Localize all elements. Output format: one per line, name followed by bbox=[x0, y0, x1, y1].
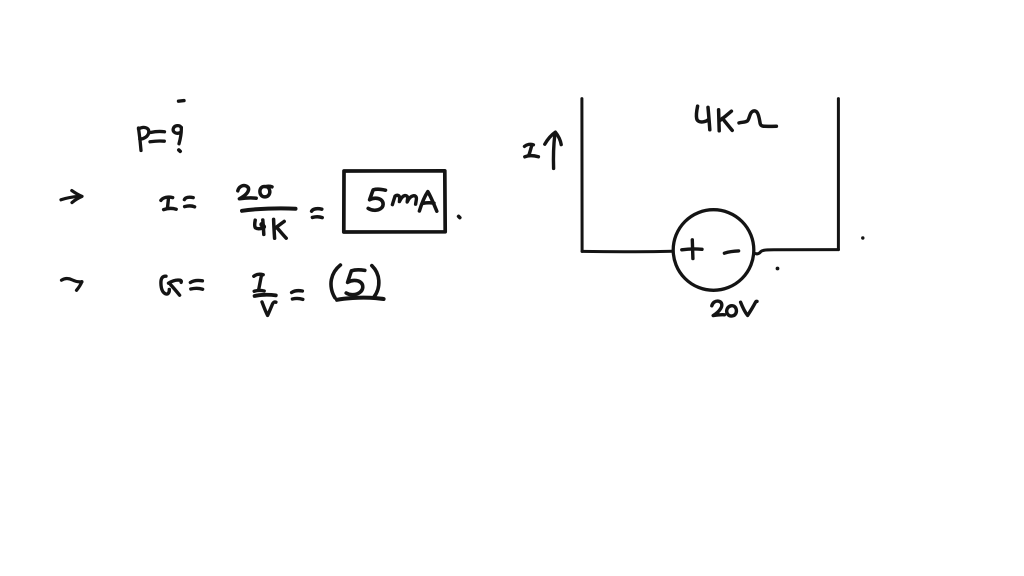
wire left vertical bbox=[580, 99, 583, 252]
current label I bbox=[525, 144, 534, 146]
node dot right of circuit bbox=[861, 236, 864, 239]
fraction bar 20/4K bbox=[242, 208, 296, 210]
answer (5) bbox=[331, 265, 340, 298]
current direction arrow bbox=[553, 135, 554, 169]
annotation dash above P bbox=[179, 99, 185, 103]
underline below (5) bbox=[337, 298, 384, 300]
wire bottom left bbox=[582, 250, 673, 254]
equals sign after R bbox=[190, 280, 202, 282]
fraction bar I/V bbox=[255, 295, 276, 296]
minus terminal bbox=[724, 251, 738, 253]
equals sign after P bbox=[151, 131, 165, 132]
resistor label 4K bbox=[696, 106, 708, 122]
resistor label ohm squiggle bbox=[739, 111, 776, 127]
answer box bbox=[344, 171, 445, 232]
question mark bbox=[173, 126, 181, 134]
boxed value 5mA bbox=[368, 189, 385, 210]
variable I bbox=[161, 197, 173, 200]
node dot below bottom wire bbox=[776, 267, 780, 271]
denominator 4K bbox=[255, 220, 264, 228]
arrow bullet 2 bbox=[62, 279, 82, 282]
wire right vertical bbox=[837, 99, 840, 250]
numerator 20 bbox=[238, 186, 256, 199]
voltage source V1 bbox=[673, 210, 754, 291]
numerator I bbox=[254, 274, 263, 276]
equals sign before box bbox=[312, 209, 322, 212]
wire bottom right bbox=[754, 250, 839, 254]
denominator V bbox=[262, 302, 276, 315]
equals sign after I bbox=[184, 197, 193, 199]
label P bbox=[139, 128, 142, 151]
variable R bbox=[161, 276, 169, 294]
value label 20V bbox=[712, 301, 725, 316]
equals sign before (5) bbox=[292, 291, 303, 293]
plus terminal bbox=[691, 240, 695, 259]
arrow bullet 1 bbox=[61, 196, 80, 200]
period after box bbox=[459, 216, 460, 217]
